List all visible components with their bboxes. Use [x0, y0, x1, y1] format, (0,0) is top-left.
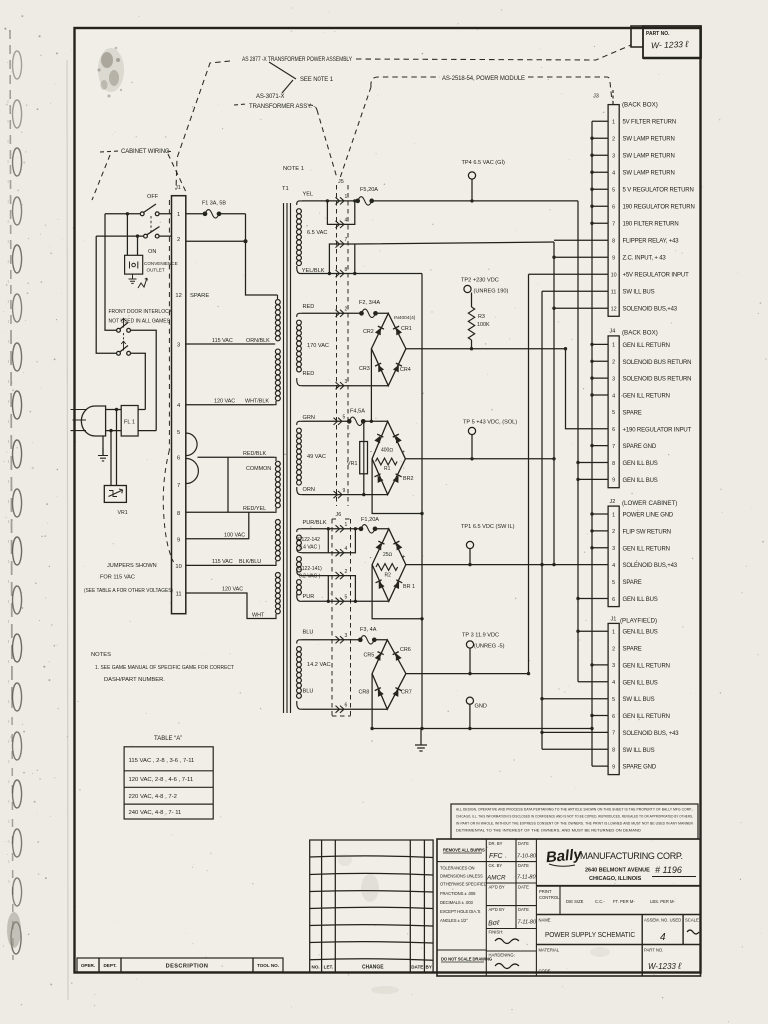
test point TP4 [468, 172, 475, 179]
convenience outlet [125, 255, 143, 274]
switch interlock 2 [117, 333, 131, 355]
svg-text:CONVENIENCE: CONVENIENCE [144, 261, 178, 266]
dashed boundary lines (assemblies) [92, 45, 631, 200]
svg-text:2640 BELMONT AVENUE: 2640 BELMONT AVENUE [585, 868, 650, 874]
svg-text:CR7: CR7 [401, 690, 412, 696]
svg-text:J6: J6 [336, 512, 342, 518]
svg-text:115 VAC , 2-8 , 3-6 , 7-11: 115 VAC , 2-8 , 3-6 , 7-11 [129, 758, 195, 764]
svg-text:FT. PER M-: FT. PER M- [613, 899, 635, 904]
wire: interlock outputs [130, 330, 156, 430]
resistor R2 25 ohm [376, 564, 398, 571]
switch SW ON [144, 216, 160, 238]
svg-text:4: 4 [612, 563, 615, 569]
svg-text:49 VAC: 49 VAC [307, 454, 326, 460]
wire: line 2 [96, 236, 245, 241]
svg-text:5: 5 [177, 430, 180, 436]
svg-text:9: 9 [177, 538, 180, 544]
fuse F1 3A,5B (line fuse) [203, 210, 221, 219]
spiral binding holes [11, 51, 21, 954]
svg-text:12: 12 [611, 307, 617, 313]
svg-text:J4: J4 [610, 329, 616, 335]
svg-text:100K: 100K [477, 322, 490, 328]
wire: +43V bus [554, 240, 608, 564]
svg-text:5V FILTER RETURN: 5V FILTER RETURN [623, 120, 677, 126]
rectifier bridge CR1-CR4 [371, 313, 406, 385]
wire: BLU 14.2VAC through J6-3 fuse F3 [302, 639, 387, 641]
legal notice box [451, 804, 698, 839]
wire dashed: transformer assy label dashes [234, 104, 317, 110]
svg-text:4: 4 [612, 171, 615, 177]
svg-text:2: 2 [612, 529, 615, 535]
wire: YEL/BLK return through J5-8 to common bus [302, 273, 422, 275]
svg-text:DATE: DATE [518, 907, 529, 912]
svg-text:GEN ILL BUS: GEN ILL BUS [623, 680, 658, 686]
wire: GRN 49VAC through J5-5 fuse F4 [302, 420, 388, 422]
wire: convenience outlet drops [127, 214, 137, 256]
test point TP1 [466, 541, 473, 548]
connector J5 dashed outline [337, 185, 349, 506]
handwritten signatures and dates [486, 853, 537, 927]
fuse F5 20A [356, 197, 374, 206]
svg-text:TP1 6.5 VDC (SW IL): TP1 6.5 VDC (SW IL) [461, 524, 515, 530]
svg-text:(UNREG -5): (UNREG -5) [474, 644, 505, 650]
svg-text:GRN: GRN [303, 415, 315, 421]
svg-text:R2: R2 [385, 573, 392, 579]
svg-text:COMMON: COMMON [246, 466, 271, 472]
svg-text:SW ILL BUS: SW ILL BUS [623, 748, 655, 754]
svg-text:DESCRIPTION: DESCRIPTION [166, 964, 209, 970]
svg-text:GEN ILL BUS: GEN ILL BUS [623, 478, 658, 484]
svg-text:IN PART OR IN WHOLE, WITH: IN PART OR IN WHOLE, WITHOUT THE EXPRESS… [456, 822, 693, 826]
svg-text:ON: ON [148, 249, 156, 255]
svg-text:1: 1 [177, 212, 180, 218]
faint smudges bottom area [338, 854, 610, 994]
svg-text:TP2 +230 VDC: TP2 +230 VDC [461, 278, 499, 284]
wire: red/yel tap (terminal 8) [186, 457, 274, 512]
svg-text:SOLENOID BUS,+43: SOLENOID BUS,+43 [623, 307, 678, 313]
tolerance column texts [440, 848, 492, 962]
wire: general illumination bus [578, 201, 608, 682]
svg-text:1: 1 [612, 120, 615, 126]
svg-text:CR1: CR1 [401, 326, 412, 332]
svg-text:TP 3 11.9 VDC: TP 3 11.9 VDC [462, 633, 499, 639]
transformer secondary 6.5 VAC (YEL / YEL-BLK) [296, 201, 302, 274]
svg-text:3: 3 [612, 663, 615, 669]
svg-text:11: 11 [176, 592, 182, 598]
wire: RED 170VAC to fuse F2 and bridge [302, 312, 388, 314]
wire: 120 vac wht (terminal 11) [186, 593, 274, 619]
revision table [310, 840, 433, 973]
wire: left vertical feeders [96, 214, 117, 353]
wire: ground bus horizontal [372, 728, 592, 730]
svg-text:8: 8 [177, 511, 180, 517]
svg-text:FL 1: FL 1 [124, 420, 135, 426]
svg-text:FRONT DOOR INTERLOCK: FRONT DOOR INTERLOCK [109, 309, 173, 315]
wire: plug ground stem [102, 436, 104, 456]
svg-text:DECIMALS ± .003: DECIMALS ± .003 [440, 900, 473, 905]
svg-text:8.2 VAC ): 8.2 VAC ) [299, 574, 321, 580]
svg-text:R1: R1 [384, 466, 391, 472]
svg-text:TOOL NO.: TOOL NO. [257, 963, 279, 968]
svg-text:4: 4 [612, 680, 615, 686]
wire: 11.9VDC output to +5 regulator bus [406, 673, 529, 675]
jumper arcs terminals 5-6 and 6-7 [186, 433, 199, 484]
svg-text:6: 6 [612, 205, 615, 211]
svg-text:-: - [370, 556, 372, 562]
wire: return stubs J4 pins 1,2,3,4,7 [592, 344, 608, 445]
svg-text:8: 8 [612, 461, 615, 467]
svg-text:(BACK BOX): (BACK BOX) [622, 330, 658, 337]
svg-text:FOR 115 VAC: FOR 115 VAC [100, 575, 135, 581]
terminal strip J1 [172, 196, 186, 614]
svg-text:POWER SUPPLY SCHEMATIC: POWER SUPPLY SCHEMATIC [545, 932, 635, 939]
svg-text:8: 8 [612, 239, 615, 245]
svg-text:T1: T1 [282, 186, 289, 192]
svg-text:9: 9 [612, 764, 615, 770]
svg-text:190 FILTER RETURN: 190 FILTER RETURN [623, 222, 679, 228]
wire: BR1 negative to common [372, 565, 422, 619]
svg-text:DETRIMENTAL TO THE INTEREST: DETRIMENTAL TO THE INTEREST OF THE OWNER… [456, 829, 641, 833]
wire: line 1 fuse side [186, 213, 246, 215]
svg-text:Bσℓ: Bσℓ [488, 920, 500, 928]
svg-text:CONTROL: CONTROL [539, 895, 560, 900]
svg-text:100 VAC: 100 VAC [224, 533, 245, 539]
svg-text:J1: J1 [611, 617, 617, 623]
svg-text:4: 4 [660, 932, 666, 943]
transformer T1 primary winding lower (RED-BLK / RED-YEL / BLK-BLU / WHT) [274, 457, 280, 618]
rectifier bridge BR2 with R1 400ohm [372, 421, 405, 494]
connector J1 (playfield) [608, 623, 619, 774]
switch SW OFF [140, 204, 159, 216]
svg-text:IN4004(4): IN4004(4) [394, 315, 416, 321]
resistor R1 400 ohm [376, 458, 398, 465]
dashed connector boundary at J1 strip [163, 200, 173, 562]
wire: common vertical bus [421, 274, 423, 729]
svg-text:OFF: OFF [147, 194, 159, 200]
svg-text:9: 9 [612, 478, 615, 484]
svg-text:3: 3 [177, 343, 180, 349]
svg-text:PRINT: PRINT [539, 889, 552, 894]
svg-text:115 VAC: 115 VAC [212, 338, 233, 344]
svg-text:RED: RED [303, 304, 315, 310]
svg-text:TP4 6.5 VAC (GI): TP4 6.5 VAC (GI) [462, 160, 506, 166]
svg-text:NOTES: NOTES [91, 652, 111, 658]
svg-text:1: 1 [345, 522, 348, 528]
svg-text:120 VAC: 120 VAC [214, 399, 235, 405]
svg-text:9.4 VAC ): 9.4 VAC ) [299, 545, 321, 551]
bottom description strip [77, 958, 283, 972]
svg-text:8: 8 [612, 748, 615, 754]
svg-text:RED/BLK: RED/BLK [243, 451, 266, 457]
ground at outlet with strain wire [129, 274, 148, 288]
wire: VR1 leads [111, 410, 117, 486]
svg-text:CHICAGO, ILLINOIS: CHICAGO, ILLINOIS [589, 876, 642, 882]
wire: return stubs J2 pins 1,2,3 [592, 514, 608, 548]
svg-text:120 VAC: 120 VAC [222, 587, 243, 593]
svg-text:# 1196: # 1196 [655, 865, 682, 875]
svg-text:NOT USED IN ALL GAMES: NOT USED IN ALL GAMES [109, 319, 171, 325]
svg-text:VR1: VR1 [118, 510, 128, 516]
svg-text:10: 10 [611, 273, 617, 279]
test point GND [466, 697, 473, 704]
transformer T1 primary winding upper (BLK COMMON / ORN-BLK / WHT-BLK) [274, 295, 280, 405]
svg-text:SPARE GND: SPARE GND [623, 765, 657, 771]
svg-text:J5: J5 [338, 179, 344, 185]
svg-text:240 VAC, 4-8 , 7- 11: 240 VAC, 4-8 , 7- 11 [129, 810, 182, 816]
transformer T1 core [284, 203, 291, 713]
svg-text:AMCR: AMCR [486, 875, 506, 882]
svg-text:SPARE: SPARE [623, 580, 642, 586]
svg-text:OPER.: OPER. [81, 963, 95, 968]
svg-text:5 V REGULATOR RETURN: 5 V REGULATOR RETURN [623, 188, 694, 194]
svg-text:CHICAGO, ILL. THIS INFORMATION: CHICAGO, ILL. THIS INFORMATION IS DISCLO… [456, 815, 693, 819]
wire: return/ground bus to connectors [592, 121, 608, 766]
line filter FL1 [121, 406, 138, 437]
svg-text:GEN ILL RETURN: GEN ILL RETURN [623, 714, 670, 720]
connector J2 (lower cabinet) [608, 506, 619, 606]
svg-text:F5,20A: F5,20A [360, 187, 378, 193]
svg-text:HARDENING:: HARDENING: [489, 953, 515, 958]
connector J6 dashed outline [332, 519, 351, 716]
svg-text:9: 9 [612, 256, 615, 262]
svg-text:6: 6 [612, 597, 615, 603]
svg-text:DASH/PART NUMBER.: DASH/PART NUMBER. [104, 677, 165, 683]
svg-text:115 VAC: 115 VAC [212, 559, 233, 565]
svg-text:CR4: CR4 [400, 367, 411, 373]
svg-text:J2: J2 [610, 499, 616, 505]
svg-text:6.5 VAC: 6.5 VAC [307, 230, 327, 236]
connector J3 (back box) [608, 105, 619, 317]
wire: switched illumination bus [542, 291, 608, 749]
wire: +230 VDC unreg output [406, 348, 566, 350]
jumper J5 pins 1-4 [327, 201, 354, 225]
svg-text:(LOWER CABINET): (LOWER CABINET) [622, 500, 677, 507]
svg-text:2: 2 [612, 137, 615, 143]
wire: BLU return to CR5-8 bottom [302, 708, 387, 710]
wire dashed: AS2877 line left leg [176, 61, 230, 190]
assembly callout: AS 2877-X TRANSFORMER POWER ASSEMBLY [121, 57, 525, 155]
svg-text:CODE: CODE [539, 969, 551, 974]
svg-text:DEPT.: DEPT. [103, 963, 116, 968]
svg-text:220 VAC, 4-8 , 7-2: 220 VAC, 4-8 , 7-2 [129, 794, 177, 800]
svg-text:J1: J1 [175, 185, 181, 191]
svg-text:SW LAMP RETURN: SW LAMP RETURN [623, 171, 675, 177]
svg-text:PUR/BLK: PUR/BLK [303, 520, 327, 526]
svg-text:7: 7 [345, 237, 348, 243]
svg-text:W-1233 ℓ: W-1233 ℓ [648, 961, 681, 971]
svg-text:MATERIAL: MATERIAL [539, 948, 560, 953]
svg-text:7: 7 [612, 731, 615, 737]
svg-text:SOLENOID BUS RETURN: SOLENOID BUS RETURN [623, 360, 692, 366]
svg-text:C.C.-: C.C.- [595, 899, 605, 904]
drawn/checked/approved cells [489, 841, 530, 958]
wire: +190 regulator input [566, 349, 609, 429]
svg-text:W- 1233 ℓ: W- 1233 ℓ [651, 39, 689, 50]
svg-text:GND: GND [475, 704, 487, 710]
svg-text:DATE: DATE [411, 965, 423, 970]
wire: PUR return to BR1 bottom [302, 600, 389, 602]
wire: 120 VAC tap (terminal 4) [186, 404, 274, 406]
svg-text:SPARE: SPARE [623, 410, 642, 416]
wire: RED lower to bridge bottom [302, 385, 388, 387]
wire: 115 vac blk/blu (terminal 10) [186, 564, 274, 566]
svg-text:JUMPERS SHOWN: JUMPERS SHOWN [107, 563, 157, 569]
wire: 115 VAC tap (terminal 3) [186, 343, 274, 345]
svg-text:7: 7 [612, 444, 615, 450]
svg-text:FRACTIONS ± .008: FRACTIONS ± .008 [440, 891, 476, 896]
svg-text:EXCEPT HOLE DIA.'S: EXCEPT HOLE DIA.'S [440, 909, 481, 914]
svg-text:NAME: NAME [539, 918, 551, 923]
svg-text:(PLAYFIELD): (PLAYFIELD) [620, 618, 657, 625]
svg-text:6: 6 [345, 703, 348, 709]
svg-text:ANGLES ± 1/2°: ANGLES ± 1/2° [440, 918, 468, 923]
jumper J5 pins 7-8 and +43 feed wire [329, 242, 554, 274]
svg-text:TRANSFORMER ASSY. -: TRANSFORMER ASSY. - [249, 104, 315, 110]
wire: red/blk common tap [198, 456, 275, 458]
svg-text:GEN ILL BUS: GEN ILL BUS [623, 630, 658, 636]
connector J4 (back box) [608, 336, 619, 488]
svg-text:4: 4 [612, 393, 615, 399]
svg-text:DIE SIZE: DIE SIZE [566, 899, 584, 904]
svg-text:+190 REGULATOR INPUT: +190 REGULATOR INPUT [623, 427, 692, 433]
svg-text:PART NO.: PART NO. [644, 948, 663, 953]
svg-text:FLIPPER RELAY, +43: FLIPPER RELAY, +43 [623, 239, 680, 245]
svg-text:BLU: BLU [303, 689, 314, 695]
transformer secondary 49 VAC (GRN / ORN) [296, 421, 302, 494]
svg-text:CR2: CR2 [363, 329, 374, 335]
svg-text:SCALE: SCALE [685, 918, 699, 923]
svg-text:CHANGE: CHANGE [362, 965, 384, 971]
fuse F1 20A [359, 525, 377, 534]
svg-text:-: - [370, 450, 372, 456]
svg-text:GEN ILL RETURN: GEN ILL RETURN [623, 343, 670, 349]
svg-text:BR2: BR2 [403, 476, 414, 482]
title block main outline [437, 839, 701, 976]
svg-text:MANUFACTURING CORP.: MANUFACTURING CORP. [580, 851, 683, 861]
rectifier bridge BR1 with R2 25ohm [372, 529, 406, 602]
svg-text:ORN/BLK: ORN/BLK [246, 338, 270, 344]
svg-text:GEN ILL RETURN: GEN ILL RETURN [623, 394, 670, 400]
svg-text:SOLENOID BUS, +43: SOLENOID BUS, +43 [623, 731, 680, 737]
svg-text:5: 5 [612, 580, 615, 586]
svg-text:11: 11 [611, 290, 617, 296]
svg-text:ALL DESIGN, OPERATIVE AND: ALL DESIGN, OPERATIVE AND PROCESS DATA P… [456, 808, 693, 812]
wire: PUR/BLK through J6-1 fuse F1 to BR1 [302, 528, 389, 530]
svg-text:LET.: LET. [324, 965, 333, 970]
svg-text:AS 2877 -X TRANSFORMER POWER A: AS 2877 -X TRANSFORMER POWER ASSEMBLY [242, 57, 352, 63]
wire dashed: see note pointer lines [269, 62, 296, 93]
svg-text:SW ILL BUS: SW ILL BUS [623, 290, 655, 296]
wire: return stubs J1 pins 3,6 [592, 665, 608, 716]
AC line plug [71, 406, 106, 436]
svg-text:AS-2518-54, POWER MODULE: AS-2518-54, POWER MODULE [442, 76, 525, 82]
test point TP3 [466, 641, 473, 648]
svg-text:5: 5 [612, 697, 615, 703]
svg-text:FLIP SW RETURN: FLIP SW RETURN [623, 529, 671, 535]
finish and hardening squiggles [495, 939, 519, 944]
svg-text:OTHERWISE SPECIFIED: OTHERWISE SPECIFIED [440, 882, 487, 887]
svg-text:PART NO.: PART NO. [646, 31, 670, 37]
svg-text:Z.C. INPUT, + 43: Z.C. INPUT, + 43 [623, 256, 667, 262]
svg-text:F1 3A, 5B: F1 3A, 5B [202, 201, 226, 207]
svg-text:5: 5 [343, 415, 346, 421]
transformer secondary 170 VAC (RED / RED) [296, 313, 302, 385]
svg-text:CR6: CR6 [400, 647, 411, 653]
svg-text:4: 4 [345, 546, 348, 552]
ground symbol at plug [98, 448, 108, 461]
wire: line 1 (hot) [105, 213, 172, 215]
svg-text:RED: RED [303, 371, 315, 377]
svg-text:WHT/BLK: WHT/BLK [245, 399, 269, 405]
fuse F2 3/4A [360, 309, 378, 318]
svg-text:DATE: DATE [518, 841, 529, 846]
junction dots left section [109, 212, 247, 432]
varistor VR1 (module) [363, 421, 365, 494]
svg-text:GEN ILL BUS: GEN ILL BUS [623, 597, 658, 603]
svg-text:DATE: DATE [518, 885, 529, 890]
jumper J6 pins 2-5 with 8.2VAC tap [302, 576, 355, 602]
svg-text:1: 1 [612, 630, 615, 636]
svg-text:GEN ILL RETURN: GEN ILL RETURN [623, 546, 670, 552]
svg-text:RED/YEL: RED/YEL [243, 506, 266, 512]
svg-text:+: + [402, 555, 406, 561]
svg-text:NOTE 1: NOTE 1 [283, 166, 304, 172]
svg-text:12: 12 [175, 293, 181, 299]
svg-text:J3: J3 [593, 94, 599, 100]
svg-text:DO NOT SCALE DRAWING: DO NOT SCALE DRAWING [441, 957, 492, 962]
svg-text:DATE: DATE [518, 863, 529, 868]
svg-text:GEN ILL RETURN: GEN ILL RETURN [623, 663, 670, 669]
print control row [539, 889, 676, 904]
svg-text:FINISH:: FINISH: [489, 930, 504, 935]
svg-text:OUTLET: OUTLET [147, 268, 165, 273]
svg-text:7-11-80: 7-11-80 [517, 875, 536, 881]
svg-text:1: 1 [345, 194, 348, 200]
svg-text:8: 8 [345, 267, 348, 273]
svg-text:REMOVE ALL BURRS: REMOVE ALL BURRS [443, 848, 485, 853]
svg-text:Bally: Bally [545, 846, 583, 866]
svg-text:PUR: PUR [303, 594, 315, 600]
svg-text:1: 1 [612, 343, 615, 349]
svg-text:2: 2 [345, 307, 348, 313]
svg-text:5: 5 [612, 410, 615, 416]
svg-text:SW ILL BUS: SW ILL BUS [623, 697, 655, 703]
transformer secondary 14.2 VAC (BLU / BLU) [296, 640, 302, 709]
svg-text:CK. BY: CK. BY [489, 863, 503, 868]
svg-text:CABINET WIRING: CABINET WIRING [121, 149, 170, 155]
svg-text:1. SEE GAME MANUAL OF SPECIFIC: 1. SEE GAME MANUAL OF SPECIFIC GAME FOR … [95, 665, 234, 671]
svg-text:AP'D BY: AP'D BY [489, 885, 505, 890]
wire: vertical from F1 to BLK common [246, 214, 278, 295]
svg-text:FFC: FFC [489, 853, 504, 860]
fuse F3 4A [359, 636, 377, 645]
svg-text:3: 3 [612, 376, 615, 382]
wire: +43 VDC output of BR2 [405, 458, 554, 460]
svg-text:TP 5 +43 VDC, (SOL): TP 5 +43 VDC, (SOL) [463, 420, 517, 426]
svg-text:(E122-142: (E122-142 [297, 537, 321, 543]
torn left edge band [8, 30, 13, 960]
svg-text:SPARE: SPARE [623, 647, 642, 653]
wire dashed: power module label line [371, 77, 440, 87]
wire: YEL 6.5VAC feed through J5-1 to fuse F5 [302, 200, 578, 202]
paper fold shadow [67, 60, 68, 1000]
svg-text:1: 1 [612, 512, 615, 518]
svg-text:14.2 VAC: 14.2 VAC [307, 662, 331, 668]
svg-text:190 REGULATOR RETURN: 190 REGULATOR RETURN [623, 205, 695, 211]
svg-text:+: + [402, 450, 406, 456]
fuse F4 5A [347, 417, 365, 426]
svg-text:CR5: CR5 [364, 653, 375, 659]
